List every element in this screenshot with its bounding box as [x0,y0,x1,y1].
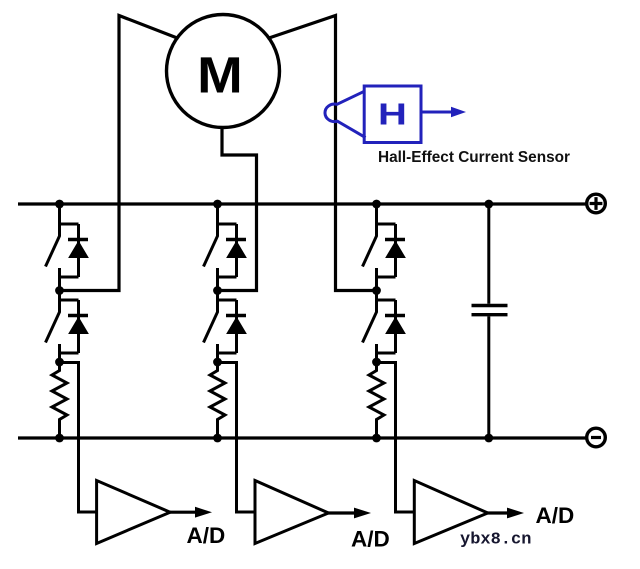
svg-text:ybx8.cn: ybx8.cn [460,531,531,550]
diode (freewheel, anti-parallel of Q2 (phase A low side)) [68,300,88,353]
transistor Q2 (phase A low side) (switch symbol) [46,291,79,362]
wire: sensor output arrow [421,111,452,114]
capacitor C1 (DC link) [472,204,508,438]
wire: phase C to motor (right lead, through Hall sensor) [268,16,377,291]
junction: leg C / - bus [372,434,381,443]
svg-text:A/D: A/D [536,503,575,528]
terminal: + (positive DC input) [587,194,606,213]
junction: leg B shunt node [213,358,222,367]
arrowhead: U2 output [354,508,371,519]
junction: leg B / + bus [213,200,222,209]
wire: phase C current-sense line to amplifier [377,363,414,513]
junction: leg C / + bus [372,200,381,209]
junction: leg B / - bus [213,434,222,443]
wire: sensor clamp loop around phase C [325,91,366,137]
wire: negative DC bus (bottom rail) [18,436,587,439]
diode (freewheel, anti-parallel of Q3 (phase B high side)) [226,224,246,277]
op-amp U1 (amplifier) [97,481,171,544]
junction: leg B midpoint [213,286,222,295]
transistor Q6 (phase C low side) (switch symbol) [363,291,396,362]
diode (freewheel, anti-parallel of Q4 (phase B low side)) [226,300,246,353]
junction: cap / + bus [484,200,493,209]
wire: phase B to motor (middle lead) [218,127,257,291]
transistor Q3 (phase B high side) (switch symbol) [204,204,237,291]
junction: leg A shunt node [55,358,64,367]
junction: leg A / - bus [55,434,64,443]
sensor body H [364,86,421,143]
arrowhead: U3 output [507,508,524,519]
wire: positive DC bus (top rail) [18,202,587,205]
svg-text:M: M [197,47,243,104]
junction: cap / - bus [484,434,493,443]
transistor Q1 (phase A high side) (switch symbol) [46,204,79,291]
resistor R2 (shunt) [210,362,225,438]
diode (freewheel, anti-parallel of Q6 (phase C low side)) [385,300,405,353]
arrowhead: U1 output [195,507,212,518]
motor M (3-phase) [167,15,280,128]
Hall-effect current sensor H (blue) [325,86,466,143]
junction: leg C shunt node [372,358,381,367]
transistor Q4 (phase B low side) (switch symbol) [204,291,237,362]
svg-text:H: H [378,96,407,131]
resistor R3 (shunt) [369,362,384,438]
junction: leg C midpoint [372,286,381,295]
svg-text:A/D: A/D [187,523,226,548]
wire: phase A current-sense line to amplifier [60,363,97,513]
transistor Q5 (phase C high side) (switch symbol) [363,204,396,291]
wire: phase B current-sense line to amplifier [218,363,255,513]
diode (freewheel, anti-parallel of Q5 (phase C high side)) [385,224,405,277]
wire: U2 output to A/D [327,511,355,514]
svg-text:Hall-Effect Current Sensor: Hall-Effect Current Sensor [378,149,570,166]
op-amp U2 (amplifier) [255,481,329,544]
diode (freewheel, anti-parallel of Q1 (phase A high side)) [68,224,88,277]
wire: U3 output to A/D [486,511,508,514]
wire: U1 output to A/D [169,511,196,514]
svg-text:A/D: A/D [351,526,390,551]
wire: phase A to motor (left lead) [60,16,179,291]
op-amp U3 (amplifier) [414,481,488,544]
terminal: - (negative DC input) [587,428,606,447]
junction: leg A midpoint [55,286,64,295]
resistor R1 (shunt) [52,362,67,438]
junction: leg A / + bus [55,200,64,209]
